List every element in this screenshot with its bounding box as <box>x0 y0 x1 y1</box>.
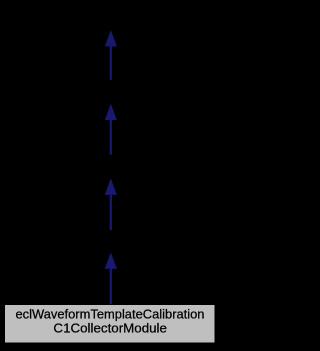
svg-text:C1CollectorModule: C1CollectorModule <box>53 320 167 335</box>
